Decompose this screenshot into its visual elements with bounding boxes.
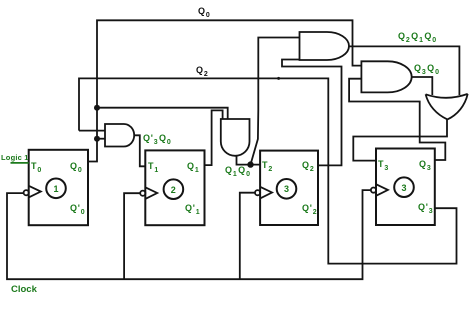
label Logic 1 <box>1 153 29 162</box>
flip-flop FF3 clock bubble <box>255 190 260 195</box>
node junction dot Q0/mid-rail <box>94 105 100 111</box>
flip-flop FF1 box <box>29 150 88 225</box>
flip-flop FF1 clock bubble <box>24 190 29 195</box>
flip-flop FF4 box <box>376 149 435 226</box>
label T2 <box>262 160 274 170</box>
wire Q0 mid rail to vertical AND gate top input <box>97 108 228 120</box>
node stray junction mark on rail <box>277 77 280 80</box>
wire AND2 output to OR left input <box>412 77 433 95</box>
label state 3 <box>284 184 290 194</box>
wire AND1 output to OR right input <box>349 46 459 95</box>
AND gate AND1L (Q'3 Q0) body <box>105 124 134 147</box>
flip-flop FF2 clock bubble <box>140 191 145 196</box>
label Q0 pin FF1 <box>70 161 83 171</box>
label T0 <box>31 161 43 171</box>
flip-flop FF4 clock bubble <box>371 188 376 193</box>
label state 1 <box>54 184 60 194</box>
node junction dot Q0/AND1L input <box>94 136 100 142</box>
label Q'1 pin FF2 <box>185 203 201 213</box>
AND gate AND1 (Q2 Q1 Q0) body <box>300 32 350 60</box>
wire Q1 net: FF2 Q1 stub up and over into vertical AND gate <box>205 110 223 165</box>
flip-flop FF3 box <box>260 151 318 225</box>
label Q1Q0 <box>225 165 251 175</box>
wire Q0 net: FF1 Q0 stub, riser, top rail, drop to AND2 top input <box>88 20 361 161</box>
label T1 <box>148 161 160 171</box>
wire Q'3 rail left drop into AND1L top input <box>79 130 105 132</box>
wire clock riser FF3 <box>240 193 255 280</box>
label Q'3 pin FF4 <box>418 202 434 212</box>
wire Q3 net: FF4 Q3 stub up over and into AND2 bottom input <box>349 79 445 160</box>
label T3 <box>378 159 390 169</box>
label state 3 (FF4) <box>402 183 408 193</box>
OR gate body pointing down <box>426 94 468 120</box>
label Q'0 pin FF1 <box>70 203 86 213</box>
label Q1 pin FF2 <box>187 161 200 171</box>
label Q3Q0 <box>414 63 440 73</box>
wire Logic 1 to T0 (green) <box>11 162 29 164</box>
flip-flop FF2 state circle <box>164 179 184 199</box>
label Q3 pin FF4 <box>419 159 432 169</box>
label Q'2 pin FF3 <box>302 203 318 213</box>
flip-flop FF1 state circle <box>46 179 66 199</box>
label Q2Q1Q0 <box>398 31 438 41</box>
wire vAND output stub down <box>237 156 261 165</box>
label Q'3Q0 <box>143 133 172 143</box>
wire clock riser FF2 <box>124 193 140 279</box>
flip-flop FF3 state circle <box>277 179 297 199</box>
label state 2 <box>171 185 177 195</box>
flip-flop FF1 clock triangle <box>29 186 41 198</box>
wire clock rail and risers <box>7 190 371 279</box>
wire AND1L output to FF2 T1 <box>134 135 145 166</box>
wire Q0 branch into AND1L bottom input <box>97 138 105 140</box>
wire Q'3 rail: corner at left, down to AND1L top input <box>79 78 457 263</box>
AND gate AND2 (Q3 Q0) body <box>361 61 411 92</box>
AND gate vAND (Q1 Q0) body pointing down <box>221 119 250 156</box>
label Q0 rail (black) <box>198 6 211 16</box>
label Q2 rail (black) <box>196 65 209 75</box>
flip-flop FF3 clock triangle <box>260 187 272 199</box>
flip-flop FF2 box <box>145 150 204 225</box>
node junction dot Q1Q0 <box>247 161 253 167</box>
wire OR output to FF4 T3 <box>353 119 447 160</box>
flip-flop FF2 clock triangle <box>145 187 157 199</box>
label Q2 pin FF3 <box>302 160 315 170</box>
flip-flop FF4 clock triangle <box>376 184 388 196</box>
flip-flop FF4 state circle <box>394 177 414 197</box>
wire AND1 bottom input hook from Q2 <box>282 60 342 166</box>
wire Q1Q0 riser to AND1 top input <box>251 38 300 165</box>
label Clock <box>11 284 37 295</box>
